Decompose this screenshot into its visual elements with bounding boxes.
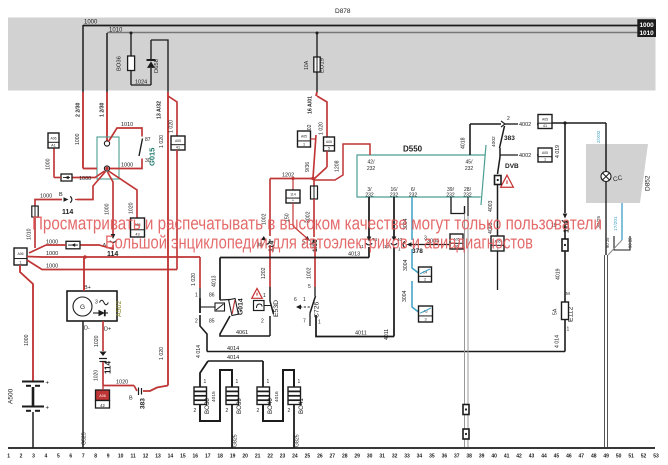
svg-text:23: 23 (280, 454, 286, 460)
svg-text:232: 232 (409, 192, 418, 198)
svg-text:42: 42 (516, 454, 522, 460)
shield bracket D852 (614, 236, 630, 250)
wire 4002 upper (505, 123, 518, 125)
svg-text:1 020: 1 020 (319, 122, 325, 135)
wire fan e: to connector below (109, 171, 138, 218)
svg-text:E53D: E53D (273, 300, 280, 317)
G015 terminal top (104, 141, 109, 146)
svg-text:A06: A06 (17, 252, 23, 256)
svg-text:5A: 5A (553, 308, 559, 315)
svg-text:C726: C726 (314, 302, 321, 318)
lamp CC (601, 172, 611, 182)
svg-text:1000: 1000 (46, 251, 58, 257)
svg-text:A05: A05 (542, 151, 548, 155)
svg-text:1 2/30: 1 2/30 (100, 102, 106, 117)
svg-text:+: + (46, 406, 50, 412)
svg-text:232: 232 (465, 166, 474, 172)
contact A / 114 (110, 234, 116, 242)
wire 4019 (564, 123, 566, 213)
svg-text:B: B (59, 192, 63, 198)
svg-text:42: 42 (100, 403, 105, 408)
svg-text:13 A/32: 13 A/32 (157, 101, 163, 119)
wire G825 ground right (293, 405, 295, 449)
svg-text:41: 41 (504, 454, 510, 460)
svg-text:D852: D852 (645, 175, 652, 191)
connector A05/36 (450, 234, 463, 249)
svg-text:2: 2 (195, 319, 198, 325)
connector A05/1 (298, 131, 311, 147)
svg-text:17: 17 (205, 454, 211, 460)
wire 1020 horizontal (102, 362, 104, 386)
svg-text:383: 383 (504, 135, 515, 142)
svg-text:28: 28 (342, 454, 348, 460)
connector A06 30/1 (14, 248, 27, 265)
svg-text:7: 7 (303, 319, 306, 325)
svg-text:1: 1 (236, 379, 239, 385)
svg-text:5: 5 (328, 146, 330, 150)
svg-text:1: 1 (303, 142, 305, 146)
connector inline E112 (562, 239, 568, 251)
teal wire to A3 (412, 281, 419, 312)
svg-text:49: 49 (603, 454, 609, 460)
svg-text:G825: G825 (295, 434, 301, 447)
svg-text:85: 85 (209, 319, 215, 325)
svg-text:3: 3 (424, 317, 426, 321)
svg-text:1208: 1208 (335, 160, 341, 172)
svg-text:1: 1 (19, 260, 21, 264)
svg-text:8: 8 (94, 454, 97, 460)
ruler numbers (7, 454, 659, 460)
svg-text:50: 50 (616, 454, 622, 460)
svg-text:6: 6 (69, 454, 72, 460)
connector A05 DVB (491, 236, 504, 251)
teal wire 3004 pin6 (411, 197, 413, 240)
svg-text:52: 52 (641, 454, 647, 460)
svg-text:1024: 1024 (135, 80, 147, 86)
wire 4003 (497, 185, 499, 237)
svg-text:21: 21 (255, 454, 261, 460)
svg-text:90 25: 90 25 (628, 237, 633, 248)
svg-text:1 020: 1 020 (169, 120, 175, 133)
svg-text:51: 51 (628, 454, 634, 460)
wire 1202 horizontal (270, 178, 313, 180)
svg-text:A502: A502 (116, 301, 123, 317)
wire 4013 (220, 299, 230, 302)
svg-text:22: 22 (267, 454, 273, 460)
inline connector DVB (495, 176, 502, 185)
svg-text:18: 18 (217, 454, 223, 460)
wire fan b: down-left (77, 172, 106, 200)
svg-text:24: 24 (292, 454, 298, 460)
svg-text:2: 2 (261, 319, 264, 325)
wire into D852 (605, 123, 607, 172)
connector A05/5 (324, 137, 335, 151)
connector A05/41 (171, 136, 185, 150)
svg-text:4018: 4018 (461, 137, 467, 149)
connector A06/42 (96, 390, 110, 401)
svg-text:1 020: 1 020 (159, 135, 165, 148)
svg-text:14: 14 (168, 454, 174, 460)
connector C4/2 (419, 267, 432, 282)
svg-text:1020: 1020 (94, 370, 100, 381)
bus wire 1010 (107, 32, 638, 34)
wire 1010 drop (pin 1 2/30) (106, 33, 108, 92)
svg-text:48: 48 (591, 454, 597, 460)
svg-text:1: 1 (567, 327, 570, 333)
svg-text:4003: 4003 (488, 200, 494, 212)
wire 4011 (316, 315, 394, 337)
svg-text:40: 40 (491, 454, 497, 460)
wire 1000 to battery (20, 265, 33, 381)
alternator A502 (67, 291, 117, 321)
svg-text:2: 2 (288, 408, 291, 414)
svg-text:53: 53 (653, 454, 659, 460)
ruler line (8, 447, 655, 449)
svg-text:47: 47 (579, 454, 585, 460)
wire 4018 pin45 (469, 124, 471, 155)
svg-text:2 2/30: 2 2/30 (76, 102, 82, 117)
branch 1 020 to connector (317, 96, 327, 138)
battery A500 (22, 381, 44, 383)
svg-text:4011: 4011 (355, 331, 367, 337)
svg-text:4002: 4002 (491, 136, 497, 147)
connector A3/3 (419, 306, 433, 322)
svg-text:2: 2 (507, 116, 510, 122)
svg-text:4002: 4002 (519, 122, 531, 128)
teal wire to C4 (412, 249, 419, 273)
svg-text:A05: A05 (326, 140, 332, 144)
svg-text:1000: 1000 (40, 194, 52, 200)
fuse EO19 (316, 32, 319, 35)
svg-text:A05: A05 (175, 139, 181, 143)
svg-text:EO19: EO19 (320, 58, 326, 73)
svg-text:34: 34 (417, 454, 423, 460)
svg-text:4061: 4061 (236, 330, 248, 336)
warning triangle DVB (501, 175, 514, 187)
svg-text:1002: 1002 (307, 267, 313, 279)
svg-text:32: 32 (392, 454, 398, 460)
svg-text:3004: 3004 (403, 259, 409, 271)
svg-text:G014: G014 (238, 298, 245, 315)
svg-text:232: 232 (367, 166, 376, 172)
svg-text:44: 44 (541, 454, 547, 460)
svg-text:31: 31 (379, 454, 385, 460)
svg-text:2: 2 (194, 408, 197, 414)
svg-text:D+: D+ (104, 327, 111, 333)
svg-text:1: 1 (263, 293, 266, 299)
svg-text:46: 46 (566, 454, 572, 460)
contact B / 383 (134, 386, 137, 392)
wire battery to ground (32, 412, 34, 448)
svg-text:16 A/01: 16 A/01 (308, 96, 314, 114)
svg-text:A1: A1 (51, 143, 56, 147)
svg-text:2: 2 (20, 454, 23, 460)
svg-text:A06: A06 (99, 394, 105, 398)
svg-text:4016: 4016 (274, 391, 280, 402)
contact 3 / 3004 (403, 241, 411, 247)
contact 19 / 114 (562, 214, 568, 222)
G015 terminal bottom (104, 166, 109, 171)
wire 4013 pin3 drop (368, 197, 370, 237)
svg-text:5: 5 (57, 454, 60, 460)
svg-text:1: 1 (544, 157, 546, 161)
svg-text:7: 7 (82, 454, 85, 460)
svg-text:2: 2 (424, 277, 426, 281)
svg-text:36: 36 (442, 454, 448, 460)
wire 1010 to connector 30/1 (34, 217, 36, 248)
svg-text:43: 43 (529, 454, 535, 460)
svg-text:1020: 1020 (116, 380, 128, 386)
wire 1000 pin30 to terminal (110, 159, 142, 169)
svg-text:G: G (80, 304, 85, 311)
svg-text:A05: A05 (542, 117, 548, 121)
connector A05/1 right (538, 148, 552, 162)
svg-text:4: 4 (45, 454, 48, 460)
svg-text:4 014: 4 014 (196, 345, 202, 358)
contact C / 114 on D+ wire (100, 352, 107, 357)
connector box 114/+ (291, 177, 294, 180)
svg-text:1: 1 (7, 454, 10, 460)
svg-text:4013: 4013 (212, 275, 218, 287)
wire 4061 (220, 316, 270, 336)
svg-text:1: 1 (318, 320, 321, 326)
net label box 1000/1010 (638, 20, 656, 37)
svg-text:E112: E112 (568, 306, 575, 322)
wire 4014 from pin2 (200, 315, 207, 352)
branch to connector (168, 96, 177, 136)
wire 1002 left branch (269, 179, 271, 237)
svg-text:87: 87 (145, 137, 151, 143)
svg-text:16: 16 (193, 454, 199, 460)
wire 1002 to C726 (314, 245, 316, 287)
svg-text:38: 38 (466, 454, 472, 460)
contact 378 b (391, 237, 397, 245)
connector inline b (463, 429, 469, 439)
svg-text:33: 33 (404, 454, 410, 460)
svg-text:1010: 1010 (639, 30, 654, 37)
svg-text:1: 1 (267, 379, 270, 385)
svg-text:B: B (129, 396, 133, 402)
svg-text:1000: 1000 (84, 20, 98, 26)
svg-text:3004: 3004 (402, 290, 408, 302)
svg-text:5: 5 (308, 284, 311, 290)
svg-text:10A: 10A (304, 60, 310, 70)
svg-text:9: 9 (107, 454, 110, 460)
svg-text:4 014: 4 014 (555, 335, 561, 348)
diode D658 (150, 68, 152, 85)
svg-text:1 020: 1 020 (159, 347, 165, 360)
svg-text:3: 3 (95, 300, 98, 306)
svg-text:M: M (566, 291, 570, 296)
teal wire 17/201 (621, 203, 623, 240)
wire 4014 upper rail (207, 351, 565, 353)
wire link BO40-BO41 (4016) (263, 370, 294, 421)
svg-text:4014: 4014 (227, 355, 239, 361)
svg-text:4002: 4002 (519, 153, 531, 159)
svg-text:1: 1 (298, 379, 301, 385)
svg-text:10: 10 (118, 454, 124, 460)
node Y junction 1202 (311, 177, 315, 181)
svg-text:1 020: 1 020 (191, 273, 197, 286)
wire 1000 from band to terminal (83, 168, 97, 170)
svg-text:29: 29 (354, 454, 360, 460)
wire link BO38-BO39 (4015) (200, 370, 232, 421)
svg-text:1020: 1020 (94, 335, 100, 347)
svg-text:DVB: DVB (505, 163, 519, 170)
svg-text:4019: 4019 (556, 268, 562, 280)
svg-text:1000: 1000 (639, 22, 654, 29)
svg-text:15: 15 (180, 454, 186, 460)
svg-text:86: 86 (209, 293, 215, 299)
wire pin16 drop (393, 197, 395, 237)
wire 4014 feed BO38 (200, 361, 208, 387)
svg-text:Просматривать и распечатывать: Просматривать и распечатывать в высоком … (32, 213, 602, 234)
svg-text:A05: A05 (301, 135, 307, 139)
svg-text:BO40: BO40 (267, 398, 274, 414)
wire 1000 fan middle (27, 256, 85, 259)
svg-text:1010: 1010 (109, 28, 123, 34)
svg-text:D658: D658 (154, 59, 160, 73)
svg-text:35: 35 (429, 454, 435, 460)
svg-text:45: 45 (554, 454, 560, 460)
wire 1000 riser to connector A05/41 (176, 150, 178, 270)
shielded pair to bottom (604, 255, 606, 447)
contact B / 114 (64, 196, 72, 202)
svg-text:1000: 1000 (75, 133, 81, 145)
svg-text:13: 13 (155, 454, 161, 460)
wire 4014 lower rail (208, 360, 263, 362)
connector inline a (463, 405, 469, 415)
wire 4014 from E112 (564, 320, 566, 352)
svg-text:4014: 4014 (227, 346, 239, 352)
contact 378 a (366, 237, 372, 245)
wire to 4061 (269, 316, 271, 336)
wire 1202 to E53D (269, 245, 271, 287)
svg-text:G525: G525 (82, 432, 88, 445)
interior harness zone (gray band) (8, 18, 656, 91)
svg-text:Большой энциклопедии для автоэ: Большой энциклопедии для автоэлектриков … (105, 232, 533, 253)
wire G825 ground (231, 405, 233, 449)
svg-text:BO36: BO36 (117, 56, 123, 71)
svg-text:A06: A06 (50, 136, 56, 140)
svg-text:42/: 42/ (368, 160, 376, 166)
svg-text:1000: 1000 (24, 334, 30, 346)
svg-text:37: 37 (454, 454, 460, 460)
svg-text:D-: D- (84, 326, 90, 332)
svg-text:41: 41 (176, 145, 180, 149)
svg-text:41: 41 (543, 124, 547, 128)
svg-text:3: 3 (32, 454, 35, 460)
svg-text:2/X02: 2/X02 (596, 130, 602, 143)
wire 30/25 below D852 (605, 182, 607, 256)
shielded pair down (464, 214, 466, 448)
svg-text:BO38: BO38 (204, 398, 211, 414)
wire 1024 (131, 84, 151, 86)
svg-text:1: 1 (195, 293, 198, 299)
svg-text:1: 1 (303, 297, 306, 303)
svg-text:39: 39 (479, 454, 485, 460)
wire fan a: to plus box and connector A1 (72, 171, 105, 178)
svg-text:114: 114 (104, 361, 113, 374)
wire 1000 fan lower (27, 260, 62, 270)
wire fan c: down through contact A (108, 172, 114, 234)
svg-text:20: 20 (242, 454, 248, 460)
ECU D550 (357, 155, 486, 197)
wire 4002 lower (500, 154, 518, 156)
contact 2 / 1-36 (unit 114) (304, 235, 315, 245)
svg-text:383: 383 (140, 398, 147, 409)
svg-text:4 019: 4 019 (555, 145, 561, 158)
wire 1000 left to plus box (80, 245, 113, 249)
svg-text:90 25: 90 25 (605, 237, 610, 248)
svg-text:17/201: 17/201 (613, 216, 619, 231)
contact 30 / 114 (261, 235, 272, 245)
shield loop pins 39/28 (451, 197, 465, 214)
wire 1020 to G014 pin1 (199, 257, 201, 288)
svg-text:1010: 1010 (121, 122, 133, 128)
svg-text:BO41: BO41 (298, 398, 305, 414)
wire 1000 drop (pin 2 2/30) (82, 25, 84, 92)
svg-text:4015: 4015 (211, 391, 217, 402)
svg-text:4011: 4011 (384, 329, 390, 340)
svg-text:114: 114 (290, 192, 296, 196)
svg-text:6: 6 (294, 297, 297, 303)
wire 16 A/01 (316, 92, 317, 96)
svg-text:9/36: 9/36 (305, 162, 311, 172)
svg-text:BO39: BO39 (236, 398, 243, 414)
svg-text:1: 1 (204, 379, 207, 385)
svg-text:D550: D550 (403, 145, 423, 154)
fuse inline (313, 179, 315, 187)
svg-text:G825: G825 (233, 434, 239, 447)
wire to D852 (552, 122, 606, 124)
wire 4014 feed BO40 (262, 361, 264, 387)
wire to 13 A/32 (151, 40, 168, 92)
connector A05/43 (131, 218, 145, 237)
svg-text:+: + (46, 381, 50, 387)
svg-text:D878: D878 (335, 8, 351, 15)
svg-text:1000: 1000 (121, 163, 133, 169)
relay G015 box (97, 137, 119, 179)
fuse inline left (32, 206, 38, 217)
svg-text:45/: 45/ (466, 160, 474, 166)
svg-text:27: 27 (330, 454, 336, 460)
svg-text:G015: G015 (148, 148, 157, 166)
svg-text:30: 30 (367, 454, 373, 460)
module D852 box (586, 144, 648, 203)
svg-text:12: 12 (143, 454, 149, 460)
svg-text:1000: 1000 (79, 176, 91, 182)
svg-text:1000: 1000 (46, 264, 58, 270)
svg-text:11: 11 (130, 454, 136, 460)
connector A06/A1 (48, 133, 59, 148)
switch blade G015 (139, 139, 143, 157)
svg-text:1000: 1000 (46, 158, 52, 170)
wire 1000 to fuse (75, 199, 77, 201)
svg-text:26: 26 (317, 454, 323, 460)
wire 1208 into pin 42 (314, 144, 370, 180)
resistor BO36 (130, 32, 133, 35)
connector A05/41 right (538, 115, 552, 129)
svg-text:A500: A500 (8, 388, 15, 404)
wire 1010 to switch pin 87 (109, 128, 143, 142)
bus wire 1000 (83, 25, 638, 27)
svg-text:1202: 1202 (261, 267, 267, 279)
svg-text:B+: B+ (84, 285, 91, 291)
svg-text:2: 2 (257, 408, 260, 414)
svg-text:25: 25 (305, 454, 311, 460)
svg-text:19: 19 (230, 454, 236, 460)
